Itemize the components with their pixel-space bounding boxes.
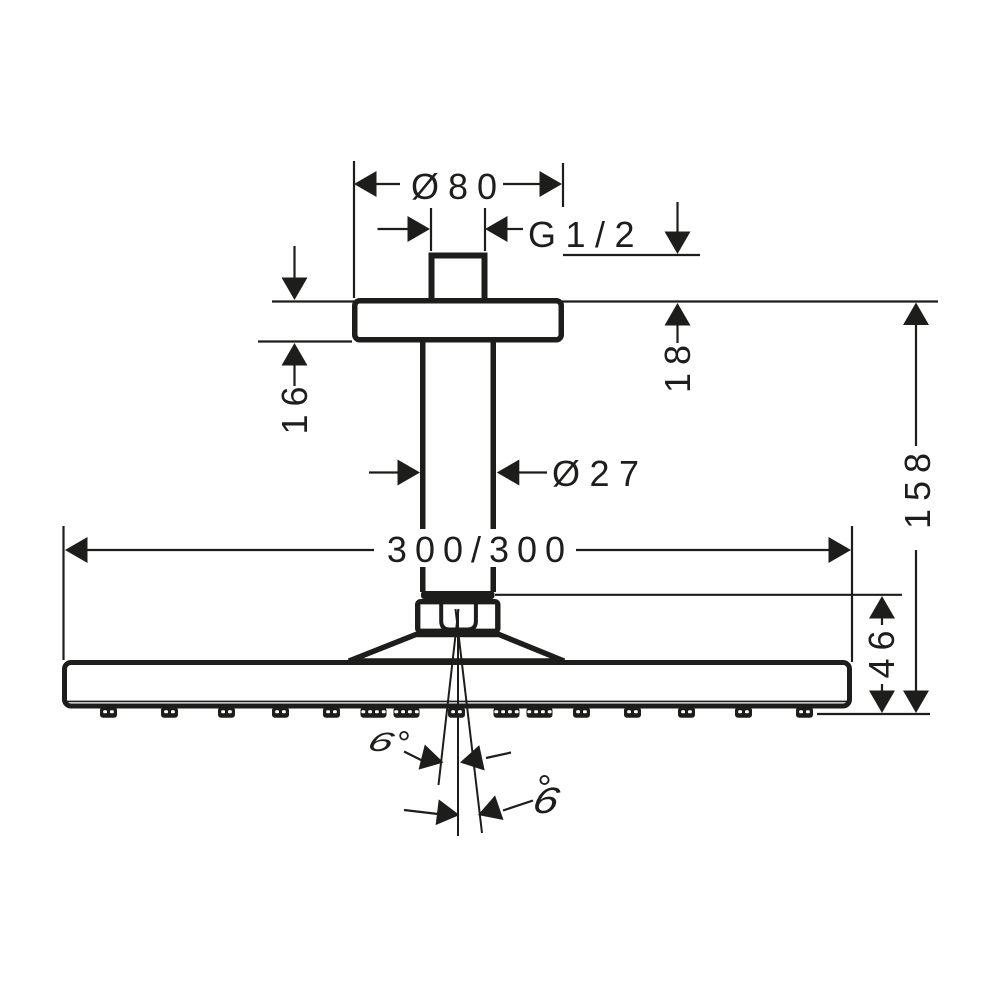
svg-text:Ø27: Ø27 — [552, 453, 649, 494]
svg-text:18: 18 — [657, 337, 698, 393]
svg-text:°: ° — [536, 767, 550, 808]
svg-text:300/300: 300/300 — [387, 529, 573, 570]
svg-text:G1/2: G1/2 — [528, 214, 644, 255]
svg-text:°: ° — [396, 725, 410, 763]
svg-text:46: 46 — [861, 622, 902, 678]
svg-text:16: 16 — [274, 378, 315, 434]
svg-text:158: 158 — [897, 445, 938, 529]
svg-text:Ø80: Ø80 — [411, 166, 506, 207]
